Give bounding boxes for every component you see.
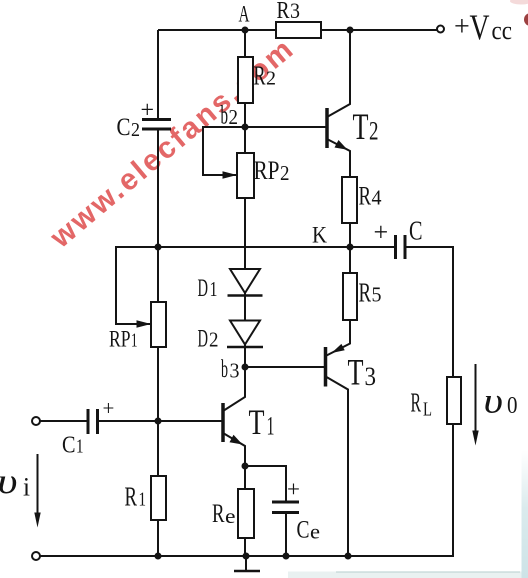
svg-text:R: R bbox=[359, 182, 372, 211]
svg-text:R: R bbox=[254, 61, 266, 91]
svg-text:i: i bbox=[23, 473, 30, 502]
svg-text:1: 1 bbox=[267, 412, 275, 441]
svg-text:5: 5 bbox=[372, 283, 382, 307]
svg-text:3: 3 bbox=[290, 0, 300, 23]
svg-text:R: R bbox=[125, 482, 138, 512]
svg-text:3: 3 bbox=[365, 362, 377, 391]
svg-text:2: 2 bbox=[131, 119, 140, 141]
svg-text:υ: υ bbox=[484, 381, 504, 421]
svg-text:C: C bbox=[62, 433, 76, 459]
svg-text:K: K bbox=[312, 223, 327, 248]
svg-text:1: 1 bbox=[131, 330, 138, 352]
svg-text:A: A bbox=[239, 2, 250, 27]
svg-text:R: R bbox=[212, 499, 225, 528]
svg-text:υ: υ bbox=[0, 461, 18, 501]
svg-text:R: R bbox=[411, 388, 422, 418]
svg-text:2: 2 bbox=[209, 328, 219, 352]
svg-text:cc: cc bbox=[492, 16, 513, 45]
svg-text:+: + bbox=[141, 98, 155, 124]
svg-text:R: R bbox=[277, 0, 290, 24]
svg-text:R: R bbox=[359, 278, 372, 308]
svg-text:1: 1 bbox=[210, 277, 218, 301]
svg-text:0: 0 bbox=[507, 393, 518, 419]
svg-text:L: L bbox=[423, 399, 432, 421]
svg-text:2: 2 bbox=[266, 68, 276, 90]
svg-text:RP: RP bbox=[254, 156, 280, 185]
svg-text:T: T bbox=[249, 402, 265, 442]
svg-text:RP: RP bbox=[109, 327, 131, 352]
svg-text:+: + bbox=[287, 477, 300, 502]
svg-text:e: e bbox=[310, 520, 320, 544]
svg-text:C: C bbox=[297, 517, 310, 544]
svg-text:T: T bbox=[353, 107, 369, 148]
svg-text:e: e bbox=[225, 504, 236, 528]
svg-text:2: 2 bbox=[229, 105, 239, 129]
svg-text:1: 1 bbox=[76, 436, 84, 458]
svg-text:V: V bbox=[470, 7, 490, 47]
svg-text:4: 4 bbox=[372, 186, 382, 210]
svg-text:+: + bbox=[103, 396, 115, 420]
svg-text:+: + bbox=[374, 218, 389, 247]
svg-text:C: C bbox=[409, 216, 423, 246]
svg-text:2: 2 bbox=[369, 117, 379, 146]
svg-text:C: C bbox=[117, 114, 131, 141]
svg-text:D: D bbox=[198, 326, 209, 353]
svg-text:b: b bbox=[221, 101, 229, 130]
svg-text:T: T bbox=[348, 353, 364, 394]
svg-text:3: 3 bbox=[230, 359, 240, 383]
svg-text:1: 1 bbox=[139, 489, 147, 511]
svg-text:D: D bbox=[198, 275, 209, 302]
svg-text:+: + bbox=[454, 12, 470, 43]
svg-text:b: b bbox=[221, 356, 228, 383]
svg-text:2: 2 bbox=[280, 161, 290, 185]
